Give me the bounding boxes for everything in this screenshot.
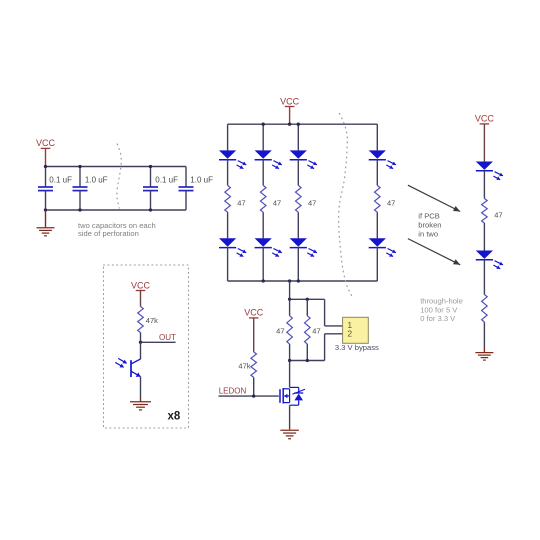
LED D2b (column 2 bottom) [255,238,282,256]
wire VCC to 47k (cell) [140,291,142,307]
LED D3a (column 3 top) [290,150,317,168]
junction bottom bus / drop wire [288,279,291,282]
wire resistor to LED column 1 [227,212,229,238]
svg-text:0.1 uF: 0.1 uF [155,176,178,185]
resistor through-hole (right column) [482,295,488,322]
wire to bypass pin 1 horizontal [325,325,343,327]
svg-text:if PCB: if PCB [418,212,440,221]
wire to bypass pin 2 horizontal [325,333,343,335]
svg-text:in two: in two [418,230,438,239]
svg-text:0 for 3.3 V: 0 for 3.3 V [420,314,456,323]
wire resistor to LED (right column) [483,223,485,251]
wire source to ground [289,405,291,424]
wire VCC to 47k resistor [253,318,255,352]
wire top bus to LED column 1 [227,124,229,150]
wire LED to bottom bus column 1 [227,247,229,281]
svg-text:47: 47 [387,199,395,208]
svg-text:47k: 47k [238,362,250,371]
arrow: if PCB broken (upper) [408,185,460,211]
junction bottom rail / C2 [78,208,81,211]
LED D5b (right column bottom) [476,251,503,269]
wire resistor B bottom stub [306,344,308,361]
capacitor C1 0.1 uF [38,167,53,211]
svg-text:x8: x8 [168,411,181,423]
ground (right column) [475,353,493,361]
note: 100 for 5 V [420,306,458,315]
junction top rail / C1 [44,165,47,168]
pin number 2 [347,329,352,339]
value label 47 (column 2) [273,199,281,208]
wire VCC to LED (right column) [483,124,485,162]
svg-text:47: 47 [276,326,284,335]
transistor Q2 NPN phototransistor [115,358,140,377]
net label LEDON [219,387,247,396]
junction OUT node [139,341,142,344]
wire LED to resistor (right column) [483,171,485,199]
junction bottom rail / C1 [44,208,47,211]
value label 47 (bypass B) [312,326,320,335]
resistor 47k (cell) [138,307,144,333]
wire LED to bottom bus column 4 [376,247,378,281]
resistor 47 (bypass B) [304,316,310,344]
resistor 47 (right column) [482,199,488,223]
pin number 1 [347,320,352,330]
wire ground stub right column (red) [483,348,485,352]
svg-text:VCC: VCC [131,280,151,290]
wire VCC to top rail [45,148,47,166]
power symbol VCC (broken-off column) [475,114,495,124]
wire drain to resistors [289,361,291,388]
svg-text:3.3 V bypass: 3.3 V bypass [335,343,379,352]
svg-text:2: 2 [347,329,352,339]
ground (capacitor section) [37,228,55,236]
value label 47k [238,362,250,371]
svg-text:1.0 uF: 1.0 uF [85,176,108,185]
LED D4a (column 4 top) [369,150,396,168]
power symbol VCC (capacitor section) [36,138,56,148]
value label 1.0 uF (C2) [85,176,108,185]
value label 47 (column 1) [237,199,245,208]
label 3.3 V bypass [335,343,379,352]
power symbol VCC (cell) [131,280,151,290]
wire resistor to LED column 2 [262,212,264,238]
resistor 47 column 2 [260,185,266,212]
svg-text:broken: broken [418,221,441,230]
svg-text:VCC: VCC [475,114,495,124]
svg-text:47: 47 [494,211,502,220]
svg-text:VCC: VCC [280,96,300,106]
arrow: if PCB broken (lower) [408,239,460,265]
value label 47 (column 4) [387,199,395,208]
wire top bus to LED column 3 [297,124,299,150]
junction bottom bus / column 2 [262,279,265,282]
capacitor C4 1.0 uF [179,167,194,211]
junction node parallel resistors top left [288,298,291,301]
svg-text:47: 47 [273,199,281,208]
power symbol VCC (LEDON branch) [244,308,264,318]
value label 47 (right column) [494,211,502,220]
junction bottom rail / C3 [149,208,152,211]
wire OUT node horizontal [141,341,176,343]
wire bottom rail to ground [45,210,47,227]
wire LED to resistor column 2 [262,159,264,185]
wire bottom bus (LED array) [228,280,378,282]
note: broken [418,221,441,230]
capacitor C2 1.0 uF [73,167,88,211]
wire resistor to ground (right column) [483,322,485,348]
junction node bottom left [288,359,291,362]
svg-text:OUT: OUT [159,333,176,342]
note: in two [418,230,438,239]
wire resistor A bottom stub [289,344,291,361]
svg-text:47: 47 [312,326,320,335]
junction top bus / column 3 [297,123,300,126]
value label 47k (cell) [146,316,158,325]
wire ground stub (red) [289,425,291,430]
wire ground stub cell (red) [140,397,142,402]
svg-text:47: 47 [308,199,316,208]
note: two capacitors on each [78,221,156,230]
svg-text:LEDON: LEDON [219,387,247,396]
ground (MOSFET source) [280,430,299,439]
wire to bypass pin 2 vertical [324,334,326,361]
resistor 47 column 1 [225,185,231,212]
LED D3b (column 3 bottom) [290,238,317,256]
wire junction top horizontal [290,298,325,300]
note: 0 for 3.3 V [420,314,456,323]
svg-text:0.1 uF: 0.1 uF [49,176,72,185]
wire resistor to LED column 4 [376,212,378,238]
wire top bus to LED column 2 [262,124,264,150]
LED D4b (column 4 bottom) [369,238,396,256]
resistor 47 column 4 [374,185,380,212]
value label 1.0 uF (C4) [190,176,213,185]
wire 47k to LEDON net [253,377,255,396]
svg-text:VCC: VCC [244,308,264,318]
net label OUT [159,333,176,342]
svg-text:47k: 47k [146,316,158,325]
junction top bus / VCC [288,123,291,126]
wire bottom rail (capacitor section) [45,209,186,211]
LED D5a (right column top) [476,162,503,180]
wire top bus to LED column 4 [376,124,378,150]
transistor Q1 N-channel MOSFET with body diode [280,387,305,405]
wire OUT node to collector [140,342,142,359]
value label 0.1 uF (C3) [155,176,178,185]
wire resistor A top stub [289,299,291,316]
perforation dotted line (LED array) [339,114,353,298]
wire bottom bus to resistor junction [289,281,291,299]
junction node bottom right [306,359,309,362]
wire emitter to ground (cell) [140,377,142,397]
wire LEDON to gate [219,395,279,397]
resistor 47k (gate pulldown) [251,352,257,377]
power symbol VCC (LED array) [280,96,300,106]
junction top bus / column 2 [262,123,265,126]
LED D2a (column 2 top) [255,150,282,168]
value label 47 (column 3) [308,199,316,208]
wire LED to bottom bus column 3 [297,247,299,281]
LED D1b (column 1 bottom) [219,238,246,256]
junction top rail / C2 [78,165,81,168]
wire 47k to OUT node [140,333,142,343]
wire VCC to top bus [289,107,291,125]
junction node parallel resistors top right [306,298,309,301]
note: through-hole [420,297,463,306]
svg-text:1.0 uF: 1.0 uF [190,176,213,185]
wire top rail (capacitor section) [45,166,186,168]
wire LED to resistor column 4 [376,159,378,185]
ground (cell) [130,402,151,410]
label x8 [168,411,181,423]
junction bottom bus / column 3 [297,279,300,282]
value label 47 (bypass A) [276,326,284,335]
junction LEDON / 47k [252,394,255,397]
capacitor C3 0.1 uF [143,167,158,211]
wire bottom horizontal to pin wires [290,360,325,362]
wire LED to bottom bus column 2 [262,247,264,281]
wire LED to resistor column 1 [227,159,229,185]
perforation dotted line (capacitor section) [117,144,121,208]
note: side of perforation [78,229,139,238]
dashed outline box (repeated cell) [104,265,189,428]
svg-text:side of perforation: side of perforation [78,229,139,238]
wire resistor B top stub [306,299,308,316]
svg-text:47: 47 [237,199,245,208]
wire top bus (LED array) [228,123,378,125]
note: if PCB [418,212,440,221]
resistor 47 (bypass A) [287,316,293,344]
svg-text:VCC: VCC [36,138,56,148]
LED D1a (column 1 top) [219,150,246,168]
junction top rail / C3 [149,165,152,168]
value label 0.1 uF (C1) [49,176,72,185]
wire LED to resistor column 3 [297,159,299,185]
wire resistor to LED column 3 [297,212,299,238]
resistor 47 column 3 [295,185,301,212]
connector 3.3 V bypass (yellow box) [343,317,369,343]
svg-text:through-hole: through-hole [420,297,463,306]
wire to bypass pin 1 vertical [324,299,326,326]
wire LED to through-hole resistor [483,260,485,295]
